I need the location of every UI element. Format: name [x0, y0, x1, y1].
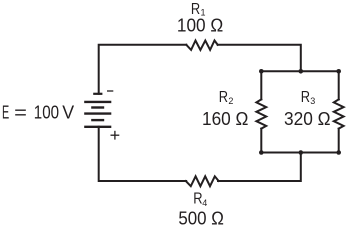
- junction node top-right of parallel section: [336, 69, 341, 74]
- svg-text:R: R: [193, 191, 202, 208]
- label E = 100 V: [2, 101, 75, 122]
- junction node bottom-left of parallel section: [259, 150, 264, 155]
- junction node bottom-middle of parallel section: [299, 150, 304, 155]
- svg-text:R: R: [219, 89, 228, 106]
- battery plate short top (negative terminal): [93, 93, 102, 95]
- svg-text:R: R: [301, 89, 310, 106]
- svg-text:500 Ω: 500 Ω: [178, 207, 224, 227]
- resistor R2: [256, 99, 266, 128]
- battery minus sign: [107, 90, 113, 92]
- resistor R3: [334, 99, 344, 128]
- battery plate long 3 (positive terminal): [84, 126, 111, 128]
- battery plus sign: [111, 131, 120, 140]
- battery E: [84, 94, 111, 127]
- svg-text:100: 100: [34, 101, 59, 122]
- wire top-left from battery to R1: [99, 45, 187, 94]
- wire R3 top lead: [338, 71, 340, 99]
- junction node bottom-right of parallel section: [336, 150, 341, 155]
- svg-text:160 Ω: 160 Ω: [202, 108, 248, 129]
- battery plate short 2: [91, 106, 104, 108]
- wire top bus of parallel section: [261, 70, 338, 72]
- battery plate short 3: [91, 119, 104, 121]
- wire bottom-left from R4 to battery: [99, 127, 187, 181]
- wire top-right from R1 to parallel node: [218, 45, 301, 72]
- svg-text:3: 3: [310, 96, 315, 106]
- svg-text:=: =: [14, 101, 27, 122]
- svg-text:100 Ω: 100 Ω: [177, 14, 223, 35]
- wire R2 top lead: [260, 71, 262, 99]
- svg-text:320 Ω: 320 Ω: [284, 108, 331, 129]
- battery plate long 2: [84, 112, 111, 114]
- wire from parallel section down to bottom loop: [218, 153, 301, 182]
- svg-text:E: E: [2, 101, 9, 122]
- wire R3 bottom lead: [338, 129, 340, 153]
- svg-text:4: 4: [202, 198, 207, 208]
- junction node top-middle of parallel section: [299, 69, 304, 74]
- battery plate long 1: [84, 101, 111, 103]
- resistor R4: [186, 176, 219, 186]
- svg-text:2: 2: [228, 96, 233, 106]
- svg-text:V: V: [62, 101, 75, 122]
- junction node top-left of parallel section: [259, 69, 264, 74]
- wire bottom bus of parallel section: [261, 152, 338, 154]
- resistor R1: [186, 41, 217, 50]
- wire R2 bottom lead: [260, 129, 262, 153]
